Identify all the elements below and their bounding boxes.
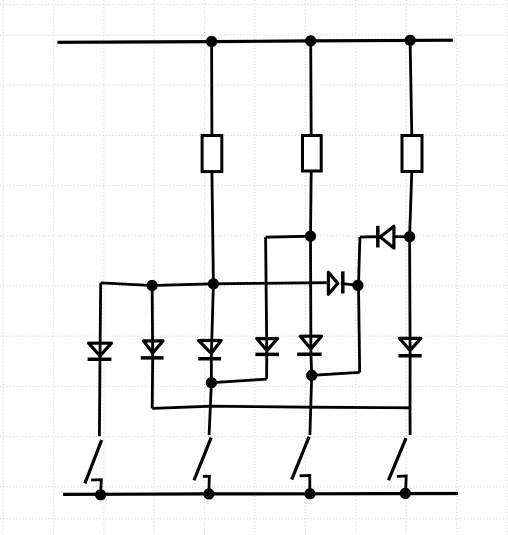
node column A / row wire — [208, 278, 219, 289]
diode D6 (horizontal, cathode left) — [378, 226, 394, 248]
node S3 / bottom bus — [304, 488, 315, 499]
node x=358 / D7 cathode — [352, 280, 363, 291]
switch S1 blade — [85, 440, 102, 484]
diode D2 (cathode down) — [141, 341, 164, 358]
wire column C upper — [410, 40, 412, 135]
wire jog D4 chain to column A — [211, 379, 266, 383]
switch S1 contact hook — [91, 480, 101, 495]
diode D8 (column C, cathode down) — [399, 338, 422, 355]
wire column B upper — [309, 41, 312, 136]
diode D1 (cathode down) — [88, 343, 112, 359]
resistor R2 — [303, 136, 322, 172]
wire bottom row y=407 to column C — [152, 406, 410, 408]
diode D4 (cathode down) — [255, 339, 279, 355]
node column C / D6 anode — [404, 231, 415, 242]
wire column A upper — [210, 42, 213, 136]
wire top bus — [57, 40, 452, 42]
diode D5 (column B, cathode down) — [297, 336, 321, 354]
wire D4 chain vertical (through D4) — [266, 237, 267, 379]
wire bottom bus — [63, 492, 458, 496]
wire jog x=360 chain to column B — [312, 372, 360, 375]
resistor R3 — [402, 136, 422, 172]
node column B / wire to D4 chain — [305, 231, 316, 242]
wire D6 anode-side stub — [360, 235, 378, 238]
switch S4 contact hook — [397, 476, 406, 493]
switch S3 blade — [292, 437, 309, 480]
node S1 / bottom bus — [95, 489, 106, 500]
node top bus / column B — [305, 35, 316, 46]
wire middle row y=283 — [101, 283, 327, 286]
switch S3 contact hook — [300, 476, 310, 494]
diode D3 (column A, cathode down) — [198, 341, 221, 359]
resistor R1 — [202, 136, 222, 172]
node column B / jog from D7 chain — [306, 370, 317, 381]
node middle row / D2 chain — [147, 280, 158, 291]
wire column C (resistor to switch S4, through D8) — [410, 172, 412, 436]
node top bus / column C — [405, 35, 416, 46]
wire column B (resistor to switch S3, through D5) — [310, 171, 312, 435]
wire vertical x=360 (D6 stub down to jog) — [359, 237, 360, 372]
diode D7 (horizontal, cathode right) — [328, 271, 342, 294]
switch S2 contact hook — [203, 476, 210, 494]
wire D6 to column C node — [396, 235, 410, 238]
node top bus / column A — [206, 36, 217, 47]
wire row at y=237 to column B — [266, 236, 311, 237]
node S4 / bottom bus — [400, 488, 411, 499]
node S2 / bottom bus — [203, 488, 214, 499]
wire column A (resistor to switch S2, through D3) — [209, 172, 213, 436]
node column A / jog from D4 chain — [206, 377, 217, 388]
wire D7 cathode to node — [341, 283, 358, 285]
switch S2 blade — [194, 438, 211, 481]
switch S4 blade — [389, 438, 407, 480]
wire left chain x=100 (through D1) — [99, 283, 100, 436]
wire D2 chain (through D2) — [151, 286, 154, 409]
